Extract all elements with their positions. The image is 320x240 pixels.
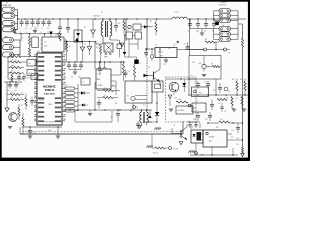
svg-text:SW1: SW1 [28,73,31,75]
svg-text:RESET: RESET [39,99,44,101]
svg-text:4u7: 4u7 [196,100,198,102]
svg-text:JP1: JP1 [168,48,171,50]
svg-text:R21: R21 [9,54,12,56]
svg-text:COM: COM [200,154,205,156]
svg-text:C16: C16 [194,82,197,84]
svg-text:R15: R15 [100,85,103,87]
svg-text:C5: C5 [55,35,57,37]
svg-text:9V: 9V [223,25,225,27]
svg-text:10u: 10u [204,31,207,33]
svg-text:IC6: IC6 [187,121,189,123]
svg-text:R8: R8 [115,103,117,105]
svg-text:+: + [224,85,225,87]
svg-text:10n: 10n [7,90,10,92]
svg-text:IC5: IC5 [194,108,197,110]
svg-text:2n2: 2n2 [47,28,50,30]
svg-text:R12: R12 [240,79,243,81]
svg-text:C2: C2 [21,41,23,43]
svg-text:C7: C7 [64,77,66,79]
svg-text:J1: J1 [65,85,67,87]
svg-text:4n7: 4n7 [25,28,28,30]
svg-text:4k7: 4k7 [218,103,221,105]
svg-text:C14: C14 [110,117,113,119]
svg-text:R14: R14 [237,138,240,140]
svg-text:4148: 4148 [174,98,177,100]
svg-text:2n2: 2n2 [143,105,145,107]
svg-text:8-BIT MCU: 8-BIT MCU [44,94,55,96]
svg-text:100n: 100n [196,31,199,33]
svg-text:C21: C21 [231,130,234,132]
svg-text:X2: X2 [83,82,85,84]
svg-text:R4: R4 [211,64,213,66]
svg-text:1n: 1n [20,28,22,30]
svg-text:IC3: IC3 [98,74,101,76]
svg-text:4MHz: 4MHz [104,57,108,59]
svg-text:10k: 10k [112,85,115,87]
svg-text:10k: 10k [11,71,14,73]
svg-text:4N25: 4N25 [44,46,48,48]
svg-text:R3: R3 [205,39,207,41]
svg-text:C13: C13 [163,64,166,66]
svg-text:MEAS. INP: MEAS. INP [3,4,12,7]
svg-text:CV 200: CV 200 [173,149,178,151]
svg-text:T2: T2 [127,30,129,32]
svg-text:150R: 150R [178,99,181,101]
svg-text:C17: C17 [204,82,207,84]
svg-text:D3: D3 [139,63,141,65]
svg-text:2n2: 2n2 [21,38,24,40]
svg-text:R1: R1 [69,46,71,48]
svg-text:R10 1k: R10 1k [153,153,158,155]
svg-text:IC2: IC2 [84,27,87,29]
svg-text:22p: 22p [78,77,81,79]
svg-text:L-N 9V 0-9V: L-N 9V 0-9V [219,4,227,6]
svg-text:4k7: 4k7 [21,92,23,94]
svg-text:R16: R16 [216,127,219,129]
svg-text:T3: T3 [136,30,138,32]
svg-text:C18: C18 [193,119,196,121]
svg-text:R5: R5 [11,92,13,94]
svg-text:OUTPUT: OUTPUT [221,2,227,4]
svg-text:n47: n47 [212,31,215,33]
svg-text:T1: T1 [101,12,103,14]
svg-text:470k: 470k [15,67,18,69]
svg-text:C4: C4 [47,32,49,34]
svg-text:R11: R11 [232,79,235,81]
svg-text:10u: 10u [231,137,234,139]
svg-text:Q1: Q1 [148,67,150,69]
svg-text:IC6: IC6 [190,128,193,130]
svg-text:B1: B1 [127,96,129,98]
svg-text:C3: C3 [40,32,42,34]
svg-text:705KJ1: 705KJ1 [45,88,55,92]
svg-text:K1: K1 [29,63,31,65]
svg-text:R6: R6 [11,97,13,99]
svg-text:R19: R19 [9,73,12,75]
svg-text:2k2: 2k2 [226,98,228,100]
svg-text:78L05: 78L05 [158,52,163,54]
svg-text:1k: 1k [104,95,106,97]
svg-text:REG: REG [98,79,101,81]
svg-text:T4: T4 [173,125,175,127]
svg-text:n47: n47 [188,31,191,33]
svg-text:C6 4n7: C6 4n7 [26,78,31,80]
svg-text:IC7: IC7 [155,45,157,47]
svg-text:3k3: 3k3 [28,57,30,59]
svg-text:R17: R17 [96,47,99,49]
svg-text:10u: 10u [228,91,231,93]
svg-text:15k: 15k [237,144,239,146]
svg-text:R22: R22 [213,90,216,92]
svg-text:C2: C2 [26,32,28,34]
svg-text:100k: 100k [11,65,15,67]
svg-text:1u: 1u [191,75,193,77]
svg-text:230V/2x9V: 230V/2x9V [93,15,100,17]
svg-text:F1: F1 [153,79,155,81]
svg-text:TL431: TL431 [209,137,214,139]
svg-text:D2: D2 [84,44,86,46]
svg-text:C20: C20 [224,111,227,113]
svg-text:IC8: IC8 [44,42,47,44]
svg-text:1M: 1M [15,60,17,62]
svg-text:R7: R7 [21,105,23,107]
svg-text:C15: C15 [184,44,187,46]
svg-text:C8: C8 [71,77,73,79]
svg-text:C19: C19 [205,119,208,121]
svg-text:IC4: IC4 [199,93,202,95]
svg-text:4k7: 4k7 [118,23,121,25]
svg-text:L1 47u: L1 47u [174,12,179,14]
svg-text:1n: 1n [42,28,44,30]
svg-text:10u: 10u [128,71,130,73]
svg-text:100n: 100n [48,130,52,132]
svg-text:OSC1: OSC1 [48,104,52,106]
svg-text:n15: n15 [36,28,39,30]
svg-text:MOC3041: MOC3041 [178,110,185,112]
svg-text:0V: 0V [228,53,230,55]
svg-text:3k3: 3k3 [104,88,107,90]
svg-text:X3: X3 [130,111,132,113]
svg-text:4u7: 4u7 [14,90,17,92]
svg-text:D5: D5 [208,85,210,87]
svg-text:+: + [147,60,148,62]
svg-text:K2: K2 [32,77,34,79]
svg-text:1k5: 1k5 [220,119,223,121]
svg-text:R2: R2 [150,21,152,23]
svg-text:1n: 1n [31,28,33,30]
svg-text:C16: C16 [192,62,195,64]
